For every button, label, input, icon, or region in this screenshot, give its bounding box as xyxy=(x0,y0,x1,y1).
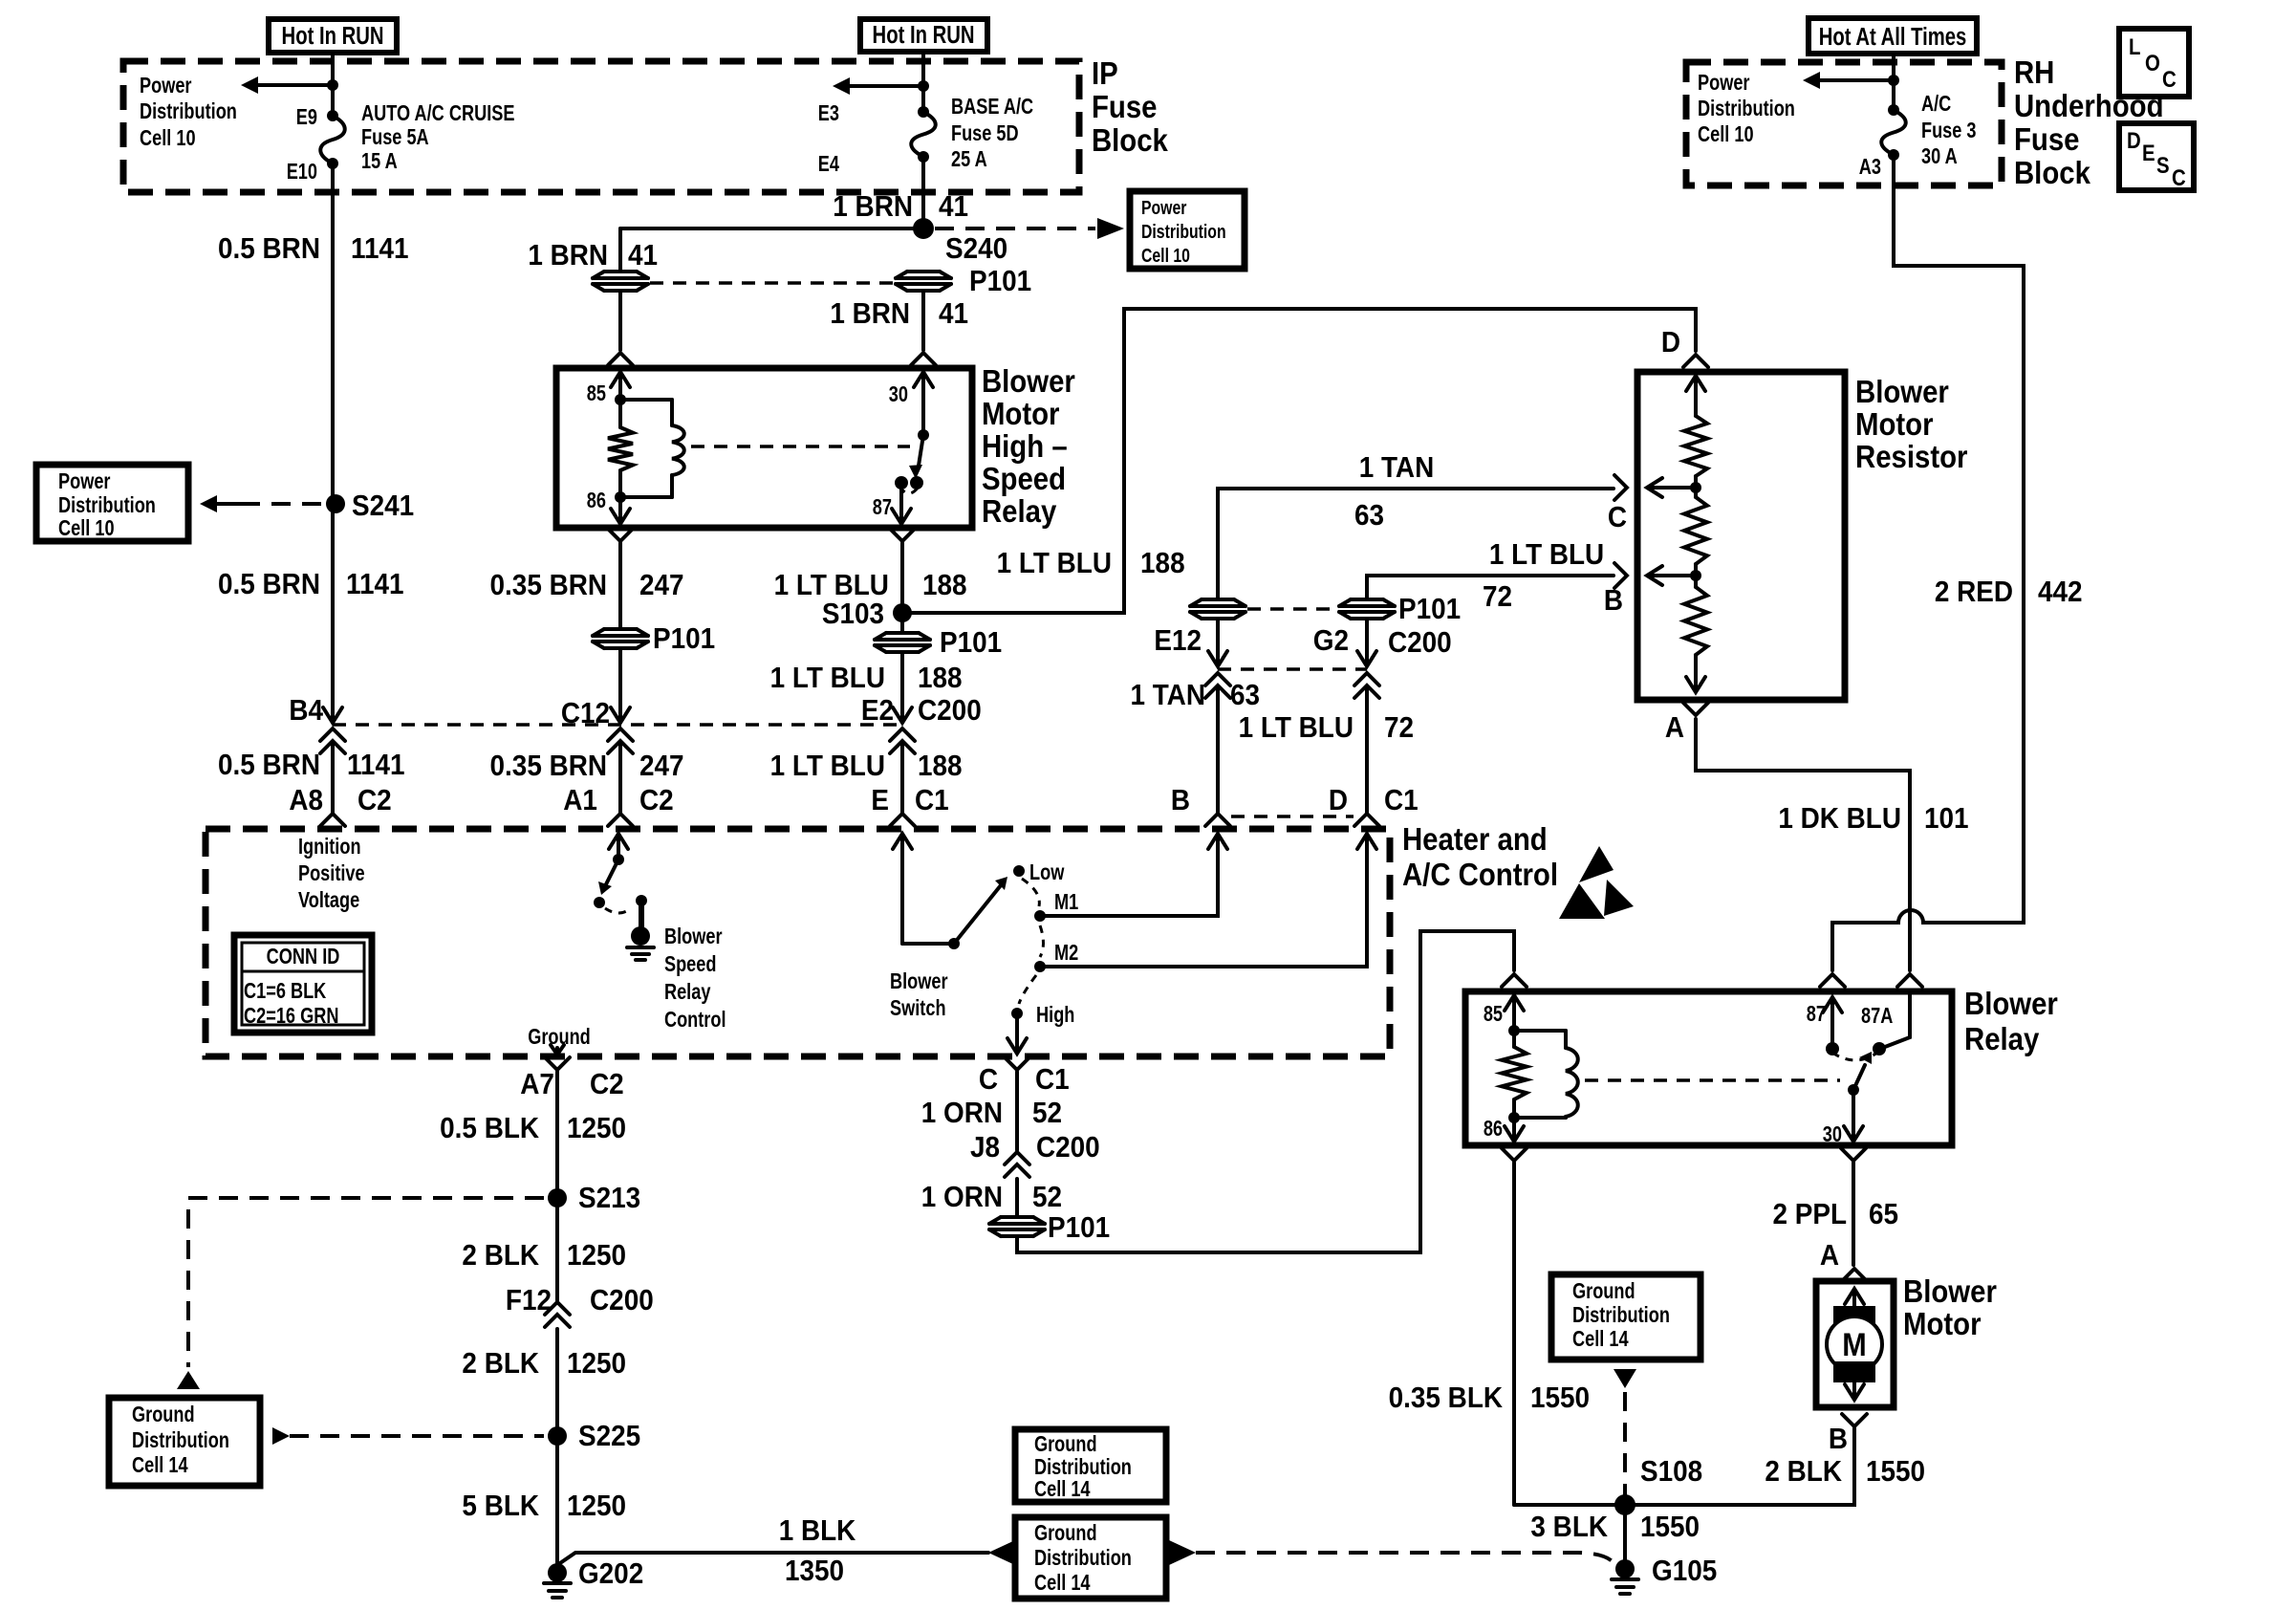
svg-text:52: 52 xyxy=(1032,1097,1062,1130)
blower relay contact 87A xyxy=(1873,1042,1886,1055)
svg-text:1 DK BLU: 1 DK BLU xyxy=(1778,802,1901,836)
svg-text:Distribution: Distribution xyxy=(132,1428,229,1453)
svg-text:G2: G2 xyxy=(1313,624,1349,658)
svg-text:Power: Power xyxy=(1698,71,1750,96)
svg-text:C12: C12 xyxy=(561,697,610,730)
off-page reference box Ground Distribution Cell 14 (S108) xyxy=(1551,1274,1700,1360)
svg-text:E9: E9 xyxy=(296,105,317,130)
svg-text:L: L xyxy=(2129,33,2140,59)
svg-text:72: 72 xyxy=(1384,711,1414,745)
svg-text:Fuse: Fuse xyxy=(1092,89,1158,124)
svg-text:0.5 BLK: 0.5 BLK xyxy=(440,1112,540,1145)
svg-text:Fuse 5D: Fuse 5D xyxy=(951,121,1019,146)
svg-text:Voltage: Voltage xyxy=(298,888,359,913)
svg-text:B: B xyxy=(1604,584,1623,618)
svg-text:Distribution: Distribution xyxy=(58,493,156,518)
wire 2 BLK 1250 lower xyxy=(555,1329,559,1426)
relay switch common from pin 30 xyxy=(921,374,925,435)
connector P101 pin G2 xyxy=(1339,598,1395,620)
pin B chevron heater xyxy=(1205,814,1230,826)
svg-text:1141: 1141 xyxy=(351,232,409,266)
double chevron below G2 xyxy=(1354,673,1379,685)
wire 1 LT BLU to P101 xyxy=(900,613,904,632)
junction S103 xyxy=(893,603,912,622)
svg-text:Distribution: Distribution xyxy=(1572,1303,1670,1328)
svg-text:0.5 BRN: 0.5 BRN xyxy=(218,232,320,266)
dashed M1 to M2 xyxy=(1040,925,1044,957)
dashed arc 87 to 87A xyxy=(1832,1053,1877,1060)
blower switch blade to Low xyxy=(954,885,1001,944)
relay Blower Relay box xyxy=(1465,991,1952,1145)
blower relay coil xyxy=(1514,1029,1566,1033)
svg-text:A: A xyxy=(1665,711,1684,745)
svg-text:S213: S213 xyxy=(578,1182,640,1215)
svg-text:Ground: Ground xyxy=(528,1025,591,1050)
svg-text:Relay: Relay xyxy=(1964,1021,2040,1056)
dashed wire S240 to power distribution cell 10 xyxy=(935,227,1095,230)
connector P101 (1 BRN right) xyxy=(896,271,951,292)
svg-text:1350: 1350 xyxy=(785,1555,844,1588)
svg-text:30: 30 xyxy=(889,382,908,407)
wire 0.5 BLK 1250 xyxy=(555,1072,559,1188)
svg-text:0.35 BLK: 0.35 BLK xyxy=(1389,1382,1504,1415)
svg-text:2 RED: 2 RED xyxy=(1935,576,2013,609)
svg-text:188: 188 xyxy=(1140,547,1185,580)
svg-text:E: E xyxy=(2142,140,2155,165)
pin chevron into relay 30 xyxy=(911,353,936,365)
svg-text:Heater and: Heater and xyxy=(1402,821,1548,857)
svg-text:0.5 BRN: 0.5 BRN xyxy=(218,749,320,782)
motor arrow up xyxy=(1852,1291,1856,1306)
svg-text:1 LT BLU: 1 LT BLU xyxy=(770,750,885,783)
wire 1 LT BLU 72 into heater D xyxy=(1365,686,1369,814)
svg-text:1550: 1550 xyxy=(1530,1382,1590,1415)
svg-text:C2: C2 xyxy=(357,784,392,817)
blower switch pin E arrow xyxy=(900,836,904,944)
off-page reference box Ground Distribution Cell 14 (mid upper) xyxy=(1015,1429,1166,1502)
wire 2 PPL 65 relay 30 to motor A xyxy=(1852,1163,1855,1265)
svg-text:C: C xyxy=(2162,66,2177,92)
svg-text:0.5 BRN: 0.5 BRN xyxy=(218,568,320,601)
svg-text:Relay: Relay xyxy=(664,980,711,1005)
svg-text:Power: Power xyxy=(58,469,111,494)
relay actuation dashed line xyxy=(691,445,910,448)
svg-text:B4: B4 xyxy=(289,694,323,728)
svg-text:E4: E4 xyxy=(818,152,840,177)
svg-text:Cell 14: Cell 14 xyxy=(132,1453,188,1478)
svg-text:86: 86 xyxy=(1484,1117,1503,1142)
dashed wire S241 to power distribution xyxy=(200,495,217,512)
svg-text:188: 188 xyxy=(918,662,963,695)
wire from Hot At All Times to fuse xyxy=(1892,54,1895,110)
resistor tap C xyxy=(1690,482,1701,493)
connector double chevron below C12 xyxy=(608,729,633,741)
ground symbol (blower speed relay control) xyxy=(631,926,650,946)
wire 0.35 BRN to C12 xyxy=(618,649,622,717)
wire 1 BRN 41 to relay pin 30 xyxy=(921,292,925,350)
wire 1 ORN 52 upper xyxy=(1015,1072,1019,1150)
svg-text:Hot At All Times: Hot At All Times xyxy=(1819,23,1967,51)
relay pin 86 arrow xyxy=(618,497,622,522)
svg-text:Motor: Motor xyxy=(1903,1306,1982,1341)
svg-text:E3: E3 xyxy=(818,101,839,126)
svg-text:Block: Block xyxy=(1092,122,1169,158)
svg-text:Underhood: Underhood xyxy=(2014,88,2164,123)
svg-text:101: 101 xyxy=(1924,802,1969,836)
junction S213 xyxy=(548,1188,567,1207)
relay coil xyxy=(620,398,672,402)
wire 3 BLK 1550 S108 to G105 xyxy=(1623,1505,1627,1562)
svg-text:Resistor: Resistor xyxy=(1855,439,1967,474)
wire 1 LT BLU 188 from relay 87 to S103 xyxy=(900,543,904,603)
svg-text:1 LT BLU: 1 LT BLU xyxy=(1489,538,1604,572)
wire 1 ORN 52 lower xyxy=(1015,1179,1019,1216)
motor brush lower xyxy=(1833,1361,1875,1382)
CONN ID table xyxy=(234,935,372,1033)
svg-text:D: D xyxy=(2127,127,2141,153)
wire 0.35 BRN 247 from relay 86 xyxy=(618,543,622,628)
wire 1 TAN 63 into heater B xyxy=(1216,686,1220,814)
svg-text:RH: RH xyxy=(2014,54,2054,90)
svg-text:1550: 1550 xyxy=(1866,1455,1925,1489)
relay pin 87 arrow xyxy=(899,483,903,522)
svg-text:Distribution: Distribution xyxy=(140,99,237,124)
svg-text:Relay: Relay xyxy=(982,493,1057,529)
fuse F5D BASE A/C pins E3-E4 xyxy=(918,106,929,118)
pin chevron below blower relay 30 xyxy=(1841,1148,1866,1161)
svg-text:A: A xyxy=(1820,1239,1839,1273)
svg-text:A8: A8 xyxy=(289,784,323,817)
wire 2 BLK 1250 upper xyxy=(555,1207,559,1300)
blower relay pin 86 arrow xyxy=(1512,1118,1516,1140)
pin chevron into resistor D xyxy=(1683,355,1708,367)
svg-text:Cell 10: Cell 10 xyxy=(1141,245,1190,266)
svg-text:Fuse 5A: Fuse 5A xyxy=(361,125,429,150)
motor M Blower Motor box xyxy=(1816,1281,1894,1407)
svg-text:C2=16 GRN: C2=16 GRN xyxy=(244,1004,338,1029)
pin chevron below blower relay 86 xyxy=(1502,1148,1527,1161)
svg-text:Fuse: Fuse xyxy=(2014,121,2080,157)
wire 1 TAN 63 resistor C to E12 xyxy=(1218,489,1614,598)
svg-text:15 A: 15 A xyxy=(361,149,398,174)
svg-text:C200: C200 xyxy=(1036,1131,1100,1164)
junction S240 xyxy=(913,218,934,239)
fuse A/C Fuse 3 pin A3 xyxy=(1888,104,1899,116)
pin A8 chevron xyxy=(320,814,345,826)
svg-text:Blower: Blower xyxy=(1903,1273,1997,1309)
wire 1 ORN to blower relay 85 xyxy=(1017,931,1514,1252)
svg-text:A/C Control: A/C Control xyxy=(1402,857,1558,892)
svg-text:Speed: Speed xyxy=(664,952,717,977)
svg-text:C1=6 BLK: C1=6 BLK xyxy=(244,979,326,1004)
svg-text:1 BRN: 1 BRN xyxy=(528,239,608,272)
svg-text:B: B xyxy=(1171,784,1190,817)
dashed M2 to High xyxy=(1019,975,1036,1004)
wire 1 LT BLU 72 resistor B to G2 xyxy=(1367,576,1614,598)
svg-text:Distribution: Distribution xyxy=(1141,221,1226,242)
wire 1 DK BLU 101 resistor A to blower relay 87A xyxy=(1696,719,1910,970)
pin D chevron heater xyxy=(1354,814,1379,826)
svg-text:Block: Block xyxy=(2014,155,2091,190)
ground G105 xyxy=(1615,1559,1635,1578)
svg-text:Ground: Ground xyxy=(1034,1521,1097,1546)
off-page reference box Power Distribution Cell 10 (S241) xyxy=(36,465,188,541)
svg-text:A3: A3 xyxy=(1859,155,1881,180)
wire 0.5 BRN 1141 into heater A8 xyxy=(331,742,335,814)
svg-text:442: 442 xyxy=(2038,576,2083,609)
junction S225 xyxy=(548,1426,567,1446)
blower speed relay control contact xyxy=(594,897,605,908)
dashed wire S225 to ground distribution xyxy=(272,1427,290,1445)
svg-text:Low: Low xyxy=(1029,860,1065,885)
blower relay switch common 30 xyxy=(1848,1084,1859,1096)
dashed connector line C2/C1 row xyxy=(333,723,902,727)
wire from Hot In RUN to fuse E3 xyxy=(921,52,925,112)
svg-text:P101: P101 xyxy=(1048,1211,1110,1245)
relay K Blower Motor High-Speed Relay box xyxy=(556,368,972,528)
arrow G2 to C200 xyxy=(1365,620,1369,664)
pin B chevron motor xyxy=(1842,1414,1867,1426)
svg-text:F12: F12 xyxy=(506,1284,552,1317)
resistor pin A arrow xyxy=(1694,655,1698,690)
pin A7 chevron below heater xyxy=(545,1057,570,1070)
svg-text:M1: M1 xyxy=(1054,890,1078,915)
relay switch blade xyxy=(919,435,923,466)
svg-text:G202: G202 xyxy=(578,1557,643,1591)
pin B chevron xyxy=(1614,563,1627,588)
svg-text:Cell 14: Cell 14 xyxy=(1034,1477,1091,1502)
svg-text:2 BLK: 2 BLK xyxy=(1765,1455,1842,1489)
blower relay switch blade xyxy=(1853,1065,1865,1090)
svg-text:65: 65 xyxy=(1869,1198,1898,1231)
blower relay resistor xyxy=(1512,1031,1516,1047)
svg-text:247: 247 xyxy=(639,750,684,783)
wire 2 RED 442 from fuse A3 to blower relay 87 xyxy=(1832,155,2024,970)
svg-text:G105: G105 xyxy=(1652,1555,1717,1588)
svg-text:C: C xyxy=(2172,164,2186,190)
svg-text:2 BLK: 2 BLK xyxy=(462,1347,539,1381)
pin chevron into blower relay 85 xyxy=(1502,974,1527,987)
svg-text:247: 247 xyxy=(639,569,684,602)
svg-text:86: 86 xyxy=(587,489,606,513)
svg-text:C1: C1 xyxy=(1035,1063,1070,1097)
svg-text:C: C xyxy=(1608,501,1627,534)
wire 1 LT BLU 188 branch to resistor D xyxy=(902,309,1696,613)
relay pin 85 arrow xyxy=(618,374,622,400)
svg-text:J8: J8 xyxy=(970,1131,1000,1164)
connector P101 (0.35 BRN) xyxy=(593,628,648,649)
svg-text:Speed: Speed xyxy=(982,461,1066,496)
svg-text:Fuse 3: Fuse 3 xyxy=(1921,119,1977,143)
pin A chevron below resistor box xyxy=(1683,703,1708,715)
wire 1 BRN 41 left branch to P101 xyxy=(618,228,622,271)
arrow E12 to C200 xyxy=(1216,620,1220,664)
svg-text:BASE A/C: BASE A/C xyxy=(951,95,1033,120)
svg-text:1 LT BLU: 1 LT BLU xyxy=(997,547,1112,580)
pin chevron below relay 87 xyxy=(890,529,915,541)
blower switch High to pin C arrow xyxy=(1015,1013,1019,1052)
svg-text:Cell 10: Cell 10 xyxy=(1698,122,1754,147)
svg-text:E: E xyxy=(871,784,889,817)
resistor element C-B xyxy=(1684,497,1707,564)
dashed line between P101 connectors xyxy=(650,281,894,285)
svg-text:1250: 1250 xyxy=(567,1490,626,1523)
ESD sensitive symbol xyxy=(1579,846,1614,882)
svg-text:S103: S103 xyxy=(822,598,884,631)
power label Hot At All Times xyxy=(1809,18,1977,54)
svg-text:A1: A1 xyxy=(563,784,597,817)
svg-text:Control: Control xyxy=(664,1008,726,1033)
blower speed relay control switch blade xyxy=(606,859,618,884)
LOC reference box xyxy=(2119,29,2189,97)
svg-text:85: 85 xyxy=(587,381,606,406)
svg-text:63: 63 xyxy=(1230,679,1260,712)
svg-text:S241: S241 xyxy=(352,490,414,523)
resistor pack Blower Motor Resistor box xyxy=(1637,372,1845,700)
pin C chevron below heater xyxy=(1005,1057,1029,1070)
svg-text:S108: S108 xyxy=(1640,1455,1702,1489)
svg-text:S240: S240 xyxy=(945,232,1007,266)
motor armature circle xyxy=(1827,1316,1882,1372)
svg-text:E2: E2 xyxy=(861,694,894,728)
wire 0.5 BRN 1141 from E10 to S241 to B4 xyxy=(331,163,335,717)
wire from Hot In RUN to fuse E9 xyxy=(331,53,335,116)
wire 1 BRN 41 from E4 to S240 xyxy=(921,157,925,228)
arrow to power distribution (left) xyxy=(256,83,333,87)
resistor element D-C xyxy=(1684,416,1707,476)
junction S108 xyxy=(1614,1494,1635,1515)
svg-text:Power: Power xyxy=(1141,197,1186,218)
svg-text:CONN ID: CONN ID xyxy=(267,945,340,969)
power label Hot In RUN (middle) xyxy=(860,19,987,52)
svg-text:Distribution: Distribution xyxy=(1034,1546,1132,1571)
svg-text:52: 52 xyxy=(1032,1181,1062,1214)
connector P101 pin E12 xyxy=(1190,598,1245,620)
wire M1 to heater pin B xyxy=(1040,836,1218,916)
svg-text:87: 87 xyxy=(1807,1002,1826,1027)
connector double chevron below B4 xyxy=(320,729,345,741)
svg-text:P101: P101 xyxy=(1398,593,1461,626)
svg-text:Ground: Ground xyxy=(1572,1279,1635,1304)
wire 5 BLK 1250 xyxy=(555,1446,559,1565)
svg-text:C1: C1 xyxy=(915,784,949,817)
dashed C1 line between B and D pins xyxy=(1231,815,1354,818)
svg-text:41: 41 xyxy=(628,239,658,272)
wire 1 BLK 1350 to ground distribution xyxy=(557,1553,988,1565)
blower switch M2 contact xyxy=(1034,961,1046,972)
svg-text:Motor: Motor xyxy=(1855,406,1934,442)
svg-text:P101: P101 xyxy=(940,626,1002,660)
off-page reference box Power Distribution Cell 10 (S240) xyxy=(1130,191,1245,269)
svg-text:85: 85 xyxy=(1484,1002,1503,1027)
svg-text:63: 63 xyxy=(1354,499,1384,533)
svg-text:E12: E12 xyxy=(1154,624,1202,658)
svg-text:Switch: Switch xyxy=(890,996,946,1021)
ground G202 xyxy=(555,1565,559,1569)
svg-text:1250: 1250 xyxy=(567,1112,626,1145)
svg-text:41: 41 xyxy=(939,190,968,224)
relay coil node 86 xyxy=(615,491,626,503)
RH underhood fuse block dashed box xyxy=(1686,62,2002,185)
svg-text:O: O xyxy=(2145,50,2160,76)
svg-text:87: 87 xyxy=(873,495,892,520)
pin A chevron motor xyxy=(1842,1269,1867,1281)
svg-text:188: 188 xyxy=(922,569,967,602)
blower speed relay control ground stub xyxy=(636,895,647,906)
svg-text:Ignition: Ignition xyxy=(298,835,361,859)
svg-text:1 TAN: 1 TAN xyxy=(1130,679,1205,712)
svg-text:2 PPL: 2 PPL xyxy=(1773,1198,1848,1231)
svg-text:C200: C200 xyxy=(590,1284,654,1317)
relay switch contact dots xyxy=(895,476,908,490)
wire M2 to heater pin D xyxy=(1040,836,1367,967)
dashed wire ground distribution to S108 xyxy=(1614,1369,1636,1388)
relay resistor between 85 and 86 xyxy=(618,400,622,427)
off-page reference box Ground Distribution Cell 14 (left) xyxy=(109,1398,260,1486)
svg-text:C200: C200 xyxy=(918,694,982,728)
svg-text:30 A: 30 A xyxy=(1921,144,1958,169)
svg-text:1250: 1250 xyxy=(567,1239,626,1273)
heater and A/C control dashed box xyxy=(206,829,1390,1056)
svg-text:30: 30 xyxy=(1823,1122,1842,1147)
svg-text:1 ORN: 1 ORN xyxy=(921,1181,1003,1214)
svg-text:1 BRN: 1 BRN xyxy=(833,190,913,224)
double chevron below E12 xyxy=(1205,673,1230,685)
svg-text:Cell 10: Cell 10 xyxy=(58,516,115,541)
svg-text:5 BLK: 5 BLK xyxy=(462,1490,539,1523)
pin A1 chevron xyxy=(608,814,633,826)
svg-text:Cell 14: Cell 14 xyxy=(1572,1327,1629,1352)
DESC reference box xyxy=(2119,123,2194,190)
svg-text:Distribution: Distribution xyxy=(1034,1455,1132,1480)
svg-text:Blower: Blower xyxy=(982,363,1075,399)
blower switch Low contact xyxy=(1013,865,1025,877)
connector double chevron below E2 xyxy=(890,729,915,741)
arrow to power distribution (middle) xyxy=(848,84,923,88)
svg-text:Cell 14: Cell 14 xyxy=(1034,1571,1091,1596)
IP fuse block dashed box xyxy=(123,61,1079,192)
dashed Low to M1 xyxy=(1022,879,1039,906)
wire 0.35 BRN 247 into heater A1 xyxy=(618,742,622,814)
svg-text:Positive: Positive xyxy=(298,861,365,886)
svg-text:25 A: 25 A xyxy=(951,147,987,172)
svg-text:M: M xyxy=(1842,1327,1866,1363)
fuse F5A AUTO A/C CRUISE pins E9-E10 xyxy=(327,110,338,121)
relay coil node 85 xyxy=(615,394,626,405)
svg-text:1 BRN: 1 BRN xyxy=(830,297,910,331)
wire 1 LT BLU to E2 xyxy=(900,653,904,717)
svg-text:1250: 1250 xyxy=(567,1347,626,1381)
svg-text:1 BLK: 1 BLK xyxy=(779,1514,856,1548)
svg-text:3 BLK: 3 BLK xyxy=(1530,1511,1608,1544)
pin chevron into relay 85 xyxy=(608,353,633,365)
svg-text:Hot In RUN: Hot In RUN xyxy=(282,22,384,50)
svg-text:0.35 BRN: 0.35 BRN xyxy=(490,569,607,602)
power label Hot In RUN (left) xyxy=(269,19,397,53)
svg-text:C2: C2 xyxy=(590,1068,624,1101)
connector P101 (1 BRN left) xyxy=(593,271,648,292)
svg-text:41: 41 xyxy=(939,297,968,331)
arrow to power distribution (right) xyxy=(1818,78,1894,82)
svg-text:1141: 1141 xyxy=(347,749,405,782)
svg-text:Blower: Blower xyxy=(1855,374,1949,409)
connector P101 (1 ORN) xyxy=(989,1216,1045,1237)
blower switch M1 contact xyxy=(1034,910,1046,922)
svg-text:D: D xyxy=(1661,326,1680,359)
svg-text:S: S xyxy=(2156,152,2170,178)
svg-text:1550: 1550 xyxy=(1640,1511,1700,1544)
svg-text:Blower: Blower xyxy=(664,925,723,949)
